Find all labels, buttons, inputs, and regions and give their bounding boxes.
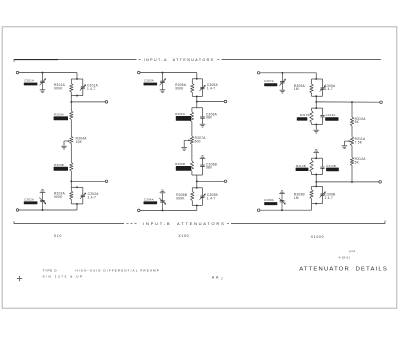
- svg-text:ATTENUATOR DETAILS: ATTENUATOR DETAILS: [299, 266, 388, 272]
- svg-text:1.4-7: 1.4-7: [207, 196, 216, 200]
- svg-text:990K: 990K: [175, 87, 184, 91]
- svg-text:A A: A A: [212, 275, 219, 279]
- svg-text:600: 600: [195, 140, 201, 144]
- svg-text:C301A: C301A: [24, 79, 34, 83]
- svg-text:C307A: C307A: [264, 79, 274, 83]
- svg-text:1.4-7: 1.4-7: [87, 87, 96, 91]
- svg-text:5K: 5K: [355, 120, 360, 124]
- svg-text:1.4-7: 1.4-7: [325, 87, 334, 91]
- svg-text:HIGH-GAIN DIFFERENTIAL PREAMP: HIGH-GAIN DIFFERENTIAL PREAMP: [76, 269, 160, 273]
- svg-text:S/N 1373 & UP: S/N 1373 & UP: [43, 275, 84, 279]
- svg-text:R303A: R303A: [54, 112, 64, 116]
- svg-text:1.4-7: 1.4-7: [207, 87, 216, 91]
- svg-text:1M: 1M: [294, 87, 299, 91]
- svg-text:C313B: C313B: [326, 164, 336, 168]
- svg-text:R306A: R306A: [175, 112, 185, 116]
- svg-text:C302A: C302A: [24, 197, 34, 201]
- svg-text:R303B: R303B: [54, 163, 64, 167]
- svg-text:900K: 900K: [54, 195, 63, 199]
- svg-text:980: 980: [206, 116, 212, 120]
- svg-text:TYPE D: TYPE D: [43, 269, 58, 273]
- svg-text:C303A: C303A: [144, 79, 154, 83]
- svg-text:X10: X10: [54, 234, 62, 238]
- svg-text:INPUT-A ATTENUATORS: INPUT-A ATTENUATORS: [144, 58, 215, 62]
- svg-text:C308A: C308A: [264, 198, 274, 202]
- svg-text:5K: 5K: [355, 161, 360, 165]
- svg-text:7.5K: 7.5K: [355, 140, 363, 144]
- svg-text:1M: 1M: [294, 196, 299, 200]
- svg-text:R306B: R306B: [175, 162, 185, 166]
- svg-text:pad: pad: [349, 249, 356, 253]
- svg-text:4-18-61: 4-18-61: [339, 255, 351, 259]
- svg-text:C313A: C313A: [326, 113, 336, 117]
- svg-text:980: 980: [206, 166, 212, 170]
- svg-text:C304A: C304A: [144, 197, 154, 201]
- svg-text:R313A: R313A: [300, 113, 310, 117]
- svg-text:X1000: X1000: [311, 235, 325, 239]
- svg-text:990K: 990K: [176, 196, 185, 200]
- svg-text:900K: 900K: [54, 87, 63, 91]
- svg-text:X100: X100: [178, 234, 189, 238]
- svg-text:1.4-7: 1.4-7: [325, 196, 334, 200]
- svg-text:INPUT-B ATTENUATORS: INPUT-B ATTENUATORS: [143, 221, 225, 226]
- svg-text:1.4-7: 1.4-7: [88, 196, 97, 200]
- svg-text:10K: 10K: [76, 140, 83, 144]
- svg-text:R313B: R313B: [296, 164, 306, 168]
